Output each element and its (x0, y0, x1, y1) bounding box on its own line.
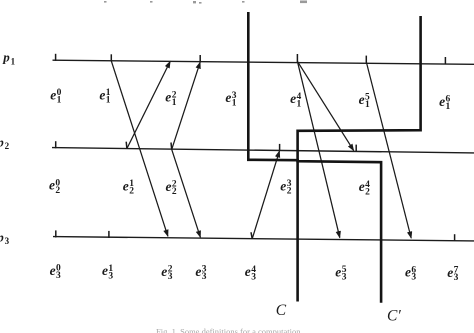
svg-text:C′: C′ (387, 307, 401, 324)
svg-text:3: 3 (5, 236, 10, 246)
tick event e2^3 on p2 (279, 144, 281, 151)
svg-text:3: 3 (108, 271, 113, 281)
tick event e3^0 on p3 (55, 230, 57, 237)
svg-text:p: p (0, 135, 4, 150)
event label e2^0 (49, 178, 60, 196)
event label e3^6 (405, 265, 416, 283)
svg-text:e: e (50, 87, 56, 102)
message arrow m6: p1 e1^4 to p2 e2^4 (297, 61, 353, 150)
event label e3^4 (245, 264, 256, 282)
label cut C (276, 302, 287, 319)
svg-text:Fig. 1. Some definitions for: Fig. 1. Some definitions for a computati… (156, 327, 301, 333)
event label e1^6 (439, 94, 450, 112)
process line p1 (53, 60, 474, 64)
svg-text:e: e (335, 264, 341, 279)
tick event e3^1 on p3 (108, 231, 110, 238)
cut C' staircase line (298, 16, 421, 303)
send barb event e2^1 on p2 (125, 142, 128, 149)
event label e3^1 (102, 263, 113, 281)
event label e3^2 (161, 264, 172, 282)
tick event e1^5 on p1 (365, 56, 367, 63)
tick event e1^3 on p1 (199, 55, 201, 62)
event label e3^3 (195, 264, 206, 282)
svg-text:1: 1 (106, 96, 111, 106)
event label e1^1 (99, 88, 110, 106)
svg-text:e: e (50, 263, 56, 278)
event label e3^5 (335, 264, 346, 282)
svg-text:e: e (165, 90, 171, 105)
send barb event e3^4 on p3 (251, 232, 252, 239)
tick event e2^0 on p2 (55, 141, 57, 148)
svg-text:e: e (225, 90, 231, 105)
faint cropped text fragments top edge (104, 1, 307, 4)
svg-text:1: 1 (172, 98, 177, 108)
event label e1^5 (359, 92, 370, 110)
svg-text:3: 3 (202, 272, 207, 282)
event label e2^4 (359, 179, 370, 197)
svg-text:3: 3 (342, 273, 347, 283)
svg-text:e: e (195, 264, 201, 279)
tick event e1^0 on p1 (55, 54, 57, 61)
svg-text:1: 1 (446, 102, 451, 112)
svg-text:1: 1 (57, 95, 62, 105)
svg-text:2: 2 (172, 187, 177, 197)
event label e1^2 (165, 90, 176, 108)
label p2 (0, 135, 10, 152)
svg-text:p: p (0, 229, 4, 244)
svg-text:e: e (405, 265, 411, 280)
message arrow m2: p2 e2^1 to p1 e1^2 (127, 61, 170, 148)
svg-text:e: e (99, 88, 105, 103)
svg-text:1: 1 (365, 100, 370, 110)
label p1 (2, 50, 15, 67)
tick event e3^7 on p3 (454, 234, 456, 241)
svg-text:e: e (123, 178, 129, 193)
tick event e1^4 on p1 (296, 54, 298, 62)
svg-text:e: e (245, 264, 251, 279)
svg-text:2: 2 (365, 187, 370, 197)
event label e3^0 (50, 263, 61, 281)
label p3 (0, 229, 10, 246)
tick event e1^6 on p1 (444, 57, 446, 64)
svg-text:2: 2 (287, 187, 292, 197)
event label e2^1 (123, 178, 134, 196)
process line p2 (52, 148, 474, 153)
process line p3 (53, 237, 474, 241)
svg-text:e: e (280, 179, 286, 194)
svg-text:2: 2 (129, 187, 134, 197)
event label e1^0 (50, 87, 61, 105)
event label e1^3 (225, 90, 236, 108)
cut C staircase line (248, 12, 297, 302)
svg-text:2: 2 (5, 141, 10, 151)
message arrow m7: p1 e1^4 to p3 e3^5 (297, 61, 339, 237)
message arrow m1: p1 e1^1 to p3 e3^2 (111, 61, 168, 236)
svg-text:3: 3 (56, 271, 61, 281)
svg-text:e: e (359, 179, 365, 194)
svg-text:1: 1 (232, 98, 237, 108)
svg-text:e: e (439, 94, 445, 109)
message arrow m3: p2 e2^2 to p1 e1^3 (172, 62, 201, 149)
svg-text:1: 1 (11, 56, 16, 66)
event label e2^3 (280, 179, 291, 197)
message arrow m4: p2 e2^2 to p3 e3^3 (172, 149, 201, 237)
svg-text:e: e (102, 263, 108, 278)
svg-text:2: 2 (55, 186, 60, 196)
svg-text:1: 1 (297, 99, 302, 109)
svg-text:e: e (166, 179, 172, 194)
event label e3^7 (447, 265, 458, 283)
label cut C' (387, 307, 401, 324)
svg-text:e: e (290, 91, 296, 106)
faint cropped caption fragment bottom edge (156, 327, 301, 333)
svg-text:e: e (359, 92, 365, 107)
svg-text:e: e (447, 265, 453, 280)
tick event e2^4 on p2 (355, 145, 357, 152)
svg-text:3: 3 (454, 273, 459, 283)
tick event e1^1 on p1 (110, 54, 112, 61)
svg-text:p: p (2, 50, 10, 65)
svg-text:3: 3 (168, 272, 173, 282)
send barb event e2^2 on p2 (170, 143, 173, 150)
svg-text:3: 3 (251, 272, 256, 282)
event label e2^2 (166, 179, 177, 197)
svg-text:e: e (161, 264, 167, 279)
event label e1^4 (290, 91, 301, 109)
message arrow m8: p1 e1^5 to p3 e3^6 (366, 62, 411, 238)
message arrow m5: p3 e3^4 to p2 e2^3 (252, 151, 279, 239)
svg-text:3: 3 (411, 273, 416, 283)
svg-text:C: C (276, 302, 287, 319)
svg-text:e: e (49, 178, 55, 193)
